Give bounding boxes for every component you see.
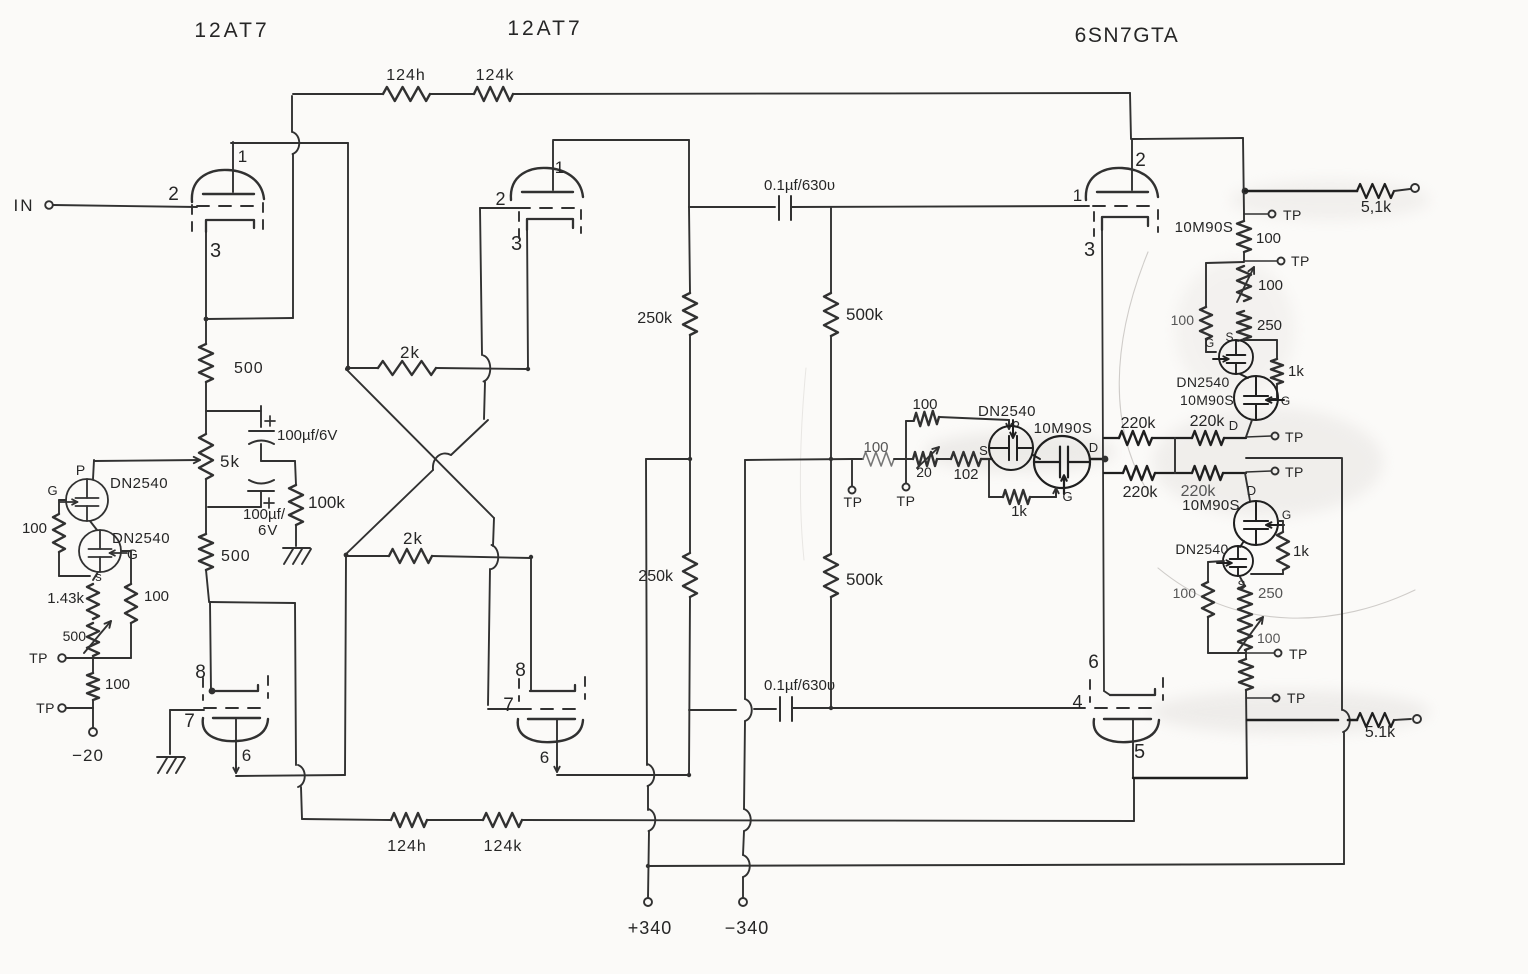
triode V1a envelope side dashes <box>191 205 193 232</box>
svg-text:5: 5 <box>1134 741 1146 763</box>
resistor 1k (Q7 gate) <box>1277 532 1289 570</box>
resistor 250 (upper) <box>1237 311 1251 339</box>
pot 5k wiper arrow <box>94 460 200 461</box>
wire V2b plate lead <box>556 719 558 771</box>
svg-text:2: 2 <box>495 189 506 209</box>
svg-text:0.1µf/630υ: 0.1µf/630υ <box>764 677 835 694</box>
svg-text:2k: 2k <box>403 529 423 548</box>
svg-text:1k: 1k <box>1288 363 1304 380</box>
node +340 terminal <box>644 898 652 906</box>
wire Q4 drain out <box>1090 458 1104 460</box>
svg-text:G: G <box>1205 336 1215 350</box>
potentiometer 5k (cathode) <box>199 434 213 479</box>
svg-text:1: 1 <box>555 158 565 177</box>
svg-text:6V: 6V <box>258 522 278 539</box>
node bottom output terminal <box>1413 715 1421 723</box>
triode V1b grid dashed line <box>204 707 263 709</box>
node TP stub (lower chain 2) <box>1246 697 1272 699</box>
resistor 100 (Q8 gate) <box>1202 582 1214 617</box>
wire mid node row <box>261 460 295 462</box>
svg-text:DN2540: DN2540 <box>110 475 168 492</box>
wire diagonal A continuation down <box>493 518 494 546</box>
triode V2a plate bar <box>522 191 573 193</box>
junction plate/2k upper <box>346 366 351 371</box>
wire 500k rail bottom <box>830 597 832 708</box>
svg-text:220k: 220k <box>1190 413 1226 430</box>
wire 250 into Q5 <box>1238 339 1244 341</box>
junction 2k lower left <box>344 553 349 558</box>
wire 220k mid connector <box>1174 438 1176 473</box>
wire servo link row <box>1246 457 1341 459</box>
wire Q7-Q8 link <box>1240 541 1244 547</box>
triode V3a cathode bracket <box>1102 217 1148 230</box>
wire Q8 to 250 <box>1240 577 1245 586</box>
pot 100 arrow (upper) <box>1237 267 1254 302</box>
resistor 100k <box>289 485 303 525</box>
triode V2b envelope dome <box>518 719 583 742</box>
wire V1a cathode lead <box>205 221 207 319</box>
triode V1a grid dashed line <box>197 205 261 207</box>
wire Q1-Q2 cascode link <box>90 521 97 530</box>
wire V3b cathode to rail <box>1104 691 1110 695</box>
triode V2b grid dashed line <box>519 708 580 710</box>
svg-text:TP: TP <box>1291 253 1310 269</box>
wire rail <box>1245 650 1247 659</box>
resistor 100 (bias bottom) <box>87 673 99 700</box>
arrowhead V1b plate lead <box>235 762 237 773</box>
wire feedback drop left (lower) <box>295 603 296 765</box>
svg-text:100: 100 <box>105 676 130 693</box>
wire feedback row up to V3b plate row <box>1133 778 1135 821</box>
resistor 100 (Q5 gate) <box>1200 307 1212 339</box>
resistor 124h (top left) <box>383 87 430 101</box>
svg-text:250: 250 <box>1258 585 1283 602</box>
wire 1k branch (Q6 gate) <box>1244 339 1277 341</box>
wire output rail top <box>1243 138 1244 214</box>
node TP stub 1 <box>851 459 853 486</box>
wire V2b grid row <box>488 708 519 710</box>
wire Q2 gate to 100 right <box>122 550 131 552</box>
wire to bottom output terminal <box>1394 719 1411 720</box>
wire 1k to rail <box>1282 570 1284 574</box>
pot 500 arrow <box>84 621 111 653</box>
wire rail <box>1243 252 1245 261</box>
svg-text:3: 3 <box>511 233 523 255</box>
potentiometer 100 (lower) <box>1238 617 1252 650</box>
svg-text:220k: 220k <box>1121 415 1157 432</box>
svg-text:TP: TP <box>1283 207 1302 223</box>
svg-text:4: 4 <box>1072 692 1083 712</box>
wire 220k lower row mid <box>1155 472 1192 474</box>
node TP row 1 <box>58 654 66 662</box>
wire V2a grid drop <box>480 208 482 355</box>
svg-text:8: 8 <box>515 660 527 681</box>
wire V3a plate lead <box>1131 140 1133 190</box>
triode V3b envelope side dashes <box>1089 680 1091 702</box>
junction coupling cap bottom <box>829 706 833 710</box>
wire coupling row top right <box>791 206 1089 207</box>
wire hop over plate row <box>293 132 300 154</box>
resistor 500 (lower, V1b cathode) <box>199 534 213 570</box>
wire feedback drop left (upper) <box>291 96 293 132</box>
svg-text:8: 8 <box>195 662 207 683</box>
wire 1k branch down <box>988 459 990 497</box>
triode V3b grid dashed line <box>1095 707 1160 709</box>
wire top feedback row right <box>513 93 1130 94</box>
wire 100 to TP row <box>1207 617 1209 653</box>
svg-text:TP: TP <box>897 493 916 509</box>
svg-text:2k: 2k <box>400 343 420 362</box>
wire bottom output row <box>1247 719 1338 722</box>
triode V2b plate bar <box>528 718 575 720</box>
wire V3b plate row <box>1133 777 1247 779</box>
wire coupling row bottom left <box>689 709 736 711</box>
wire V2a grid entry <box>480 207 518 209</box>
wire into Q3 <box>981 458 992 460</box>
wire 250k rail top <box>689 207 690 293</box>
triode V1a cathode bracket <box>206 220 254 232</box>
triode V2a cathode bracket <box>527 219 573 230</box>
potentiometer 500 (bias) <box>87 623 99 656</box>
svg-text:250k: 250k <box>637 310 673 327</box>
capacitor C1 100uF/6V <box>249 430 274 432</box>
triode V1b cathode bracket <box>214 685 258 691</box>
svg-text:5,1k: 5,1k <box>1361 199 1392 216</box>
svg-text:10M90S: 10M90S <box>1180 392 1234 408</box>
resistor 500k (upper) <box>824 293 838 336</box>
wire 220k upper row left <box>1104 437 1119 439</box>
node row to cap C1 <box>206 410 261 412</box>
wire to top output terminal <box>1394 189 1410 191</box>
resistor 220k (upper right) <box>1192 431 1224 445</box>
resistor 220k (upper left) <box>1119 431 1152 445</box>
wire plate node V1b up <box>345 556 346 775</box>
resistor 220k (lower right) <box>1192 466 1223 480</box>
triode V1a envelope dome <box>192 170 264 202</box>
node top output terminal <box>1411 184 1419 192</box>
wire servo row <box>894 458 913 460</box>
wire IN to V1a grid pin2 <box>53 205 197 207</box>
svg-text:TP: TP <box>844 494 863 510</box>
resistor 100 (gate feed) <box>914 411 939 426</box>
svg-text:DN2540: DN2540 <box>1176 374 1229 390</box>
resistor 102 <box>951 452 981 466</box>
svg-text:TP: TP <box>29 650 48 666</box>
junction B+ 250k node <box>688 457 692 461</box>
svg-text:124h: 124h <box>386 67 426 84</box>
svg-text:124k: 124k <box>476 67 515 84</box>
node -340 terminal <box>739 898 747 906</box>
wire V1b cathode lead up <box>210 602 211 691</box>
svg-text:7: 7 <box>503 695 515 716</box>
resistor 2k (lower) <box>389 549 432 563</box>
resistor 2k (upper) <box>378 361 436 375</box>
svg-text:7: 7 <box>184 711 196 732</box>
ground (100k) <box>283 547 310 549</box>
triode V3a grid dashed line <box>1093 205 1152 207</box>
svg-text:G: G <box>47 483 58 498</box>
svg-text:100: 100 <box>912 396 937 413</box>
svg-text:TP: TP <box>1287 690 1306 706</box>
wire 1k to Q4 gate <box>1030 496 1056 498</box>
svg-text:2: 2 <box>1135 150 1147 171</box>
node loop mark <box>1014 422 1019 427</box>
triode V1b envelope dome <box>203 718 268 741</box>
wire hop over V1b plate row <box>298 765 305 787</box>
wire 220k lower row left <box>1104 472 1123 474</box>
capacitor C1 plus sign <box>265 420 275 422</box>
hop over 2k lower <box>492 545 499 569</box>
svg-text:220k: 220k <box>1123 484 1159 501</box>
wire V1b plate row <box>236 775 345 776</box>
wire link down to B+ row <box>1341 458 1343 710</box>
mosfet Q1 DN2540 (upper) <box>66 479 108 521</box>
wire Q2 source to chain <box>93 572 98 580</box>
svg-text:D: D <box>1229 418 1239 433</box>
wire 100 branch up <box>905 421 907 459</box>
wire 220k node into Q7 <box>1245 473 1250 501</box>
resistor 250k (lower) <box>683 553 697 597</box>
wire 100 to source node <box>58 552 60 576</box>
wire V2a cathode lead <box>527 222 528 369</box>
pot 100 arrow (lower) <box>1238 617 1263 651</box>
svg-text:0.1µf/630υ: 0.1µf/630υ <box>764 177 835 194</box>
wire -340 riser <box>744 460 746 699</box>
wire V1a plate node row <box>231 142 348 144</box>
wire V3a cathode rail <box>1102 229 1104 691</box>
svg-text:2: 2 <box>168 184 180 205</box>
svg-text:250: 250 <box>1257 317 1282 334</box>
svg-text:10M90S: 10M90S <box>1182 497 1240 514</box>
svg-text:100: 100 <box>1256 230 1281 247</box>
svg-text:100: 100 <box>1171 312 1195 328</box>
node -20 terminal <box>89 728 97 736</box>
wire 5k wiper feed down <box>93 460 94 479</box>
svg-text:250k: 250k <box>638 568 674 585</box>
triode V3a envelope side dashes <box>1093 212 1095 236</box>
triode V3a plate bar <box>1097 191 1148 193</box>
svg-text:s: s <box>95 569 103 584</box>
mosfet Q3 DN2540 (servo) <box>989 426 1033 470</box>
resistor 124k (bottom right) <box>483 813 522 827</box>
capacitor C2 curved plate <box>249 480 274 484</box>
triode V2a grid dashed line <box>518 207 577 209</box>
svg-text:5k: 5k <box>220 452 240 471</box>
junction V1a cathode row <box>204 317 209 322</box>
potentiometer 100 (upper) <box>1237 266 1251 301</box>
wire coupling row bottom right <box>792 707 1085 709</box>
junction 2k lower right <box>529 555 533 559</box>
wire 2k lower left <box>346 555 389 557</box>
resistor 100 (lower chain) <box>1239 659 1253 690</box>
wire V2a plate node down <box>688 140 690 207</box>
arrowhead V2b plate lead <box>556 761 558 772</box>
node TP stub (220k upper) <box>1246 436 1271 437</box>
svg-text:1k: 1k <box>1293 543 1309 560</box>
triode V2a envelope side dashes <box>518 212 520 238</box>
wire feedback down to V3a plate node <box>1130 93 1131 139</box>
svg-text:500: 500 <box>234 360 264 377</box>
resistor 100 (Q2 gate) <box>125 584 137 623</box>
wire between 124 resistors <box>430 93 474 95</box>
wire Q1 gate to 100 <box>59 499 66 501</box>
svg-text:100: 100 <box>1257 630 1281 646</box>
wire gate feed to Q3 <box>939 417 1009 420</box>
wire 2k upper left <box>348 367 378 369</box>
resistor 1.43k <box>87 584 99 619</box>
capacitor C2 plus sign <box>264 502 274 504</box>
svg-text:100µf/6V: 100µf/6V <box>277 427 337 444</box>
triode V3a envelope dome <box>1086 168 1158 200</box>
wire V2b plate row <box>557 774 689 776</box>
junction dot servo drain <box>1102 456 1109 463</box>
svg-text:D: D <box>1089 440 1099 455</box>
svg-text:TP: TP <box>1285 429 1304 445</box>
hop link over bottom output row <box>1343 710 1350 732</box>
diagonal wire A (plate V1a to V2b grid) <box>346 369 494 518</box>
wire 220k lower row right <box>1223 472 1246 474</box>
wire 5k to 500 lower <box>205 479 207 534</box>
wire V2b cathode lead <box>530 558 532 691</box>
node TP stub (plate) <box>1244 213 1268 215</box>
wire 100 left branch <box>1206 262 1244 263</box>
hop +340 over feedback row <box>649 809 656 831</box>
svg-text:TP: TP <box>36 700 55 716</box>
wire V3b plate lead <box>1132 719 1134 742</box>
node TP stub (chain) <box>1244 260 1277 262</box>
resistor 250 (lower) <box>1238 586 1252 617</box>
junction 500k servo node <box>829 457 833 461</box>
triode V2a envelope dome <box>511 168 583 200</box>
svg-text:20: 20 <box>916 464 932 480</box>
hop -340 over B+ row <box>743 855 750 877</box>
svg-text:TP: TP <box>1289 646 1308 662</box>
svg-text:6: 6 <box>540 748 550 767</box>
arrowhead into Q3 top <box>1008 420 1010 429</box>
arrowhead into Q4 gate <box>1055 488 1057 497</box>
wire top output row <box>1245 190 1357 193</box>
hop +340 over V2b plate row <box>648 764 655 786</box>
diagonal wire B lower <box>346 470 433 554</box>
wire V1b cathode row to feedback drop <box>209 602 295 603</box>
wire V2a plate lead <box>552 141 554 190</box>
wire V3b plate down <box>1132 742 1134 778</box>
mosfet Q5 DN2540 (upper out) <box>1219 340 1253 374</box>
wire between bottom 124 resistors <box>427 819 483 821</box>
resistor 5.1k (top output) <box>1357 184 1394 198</box>
junction +340 B+ row <box>646 864 650 868</box>
svg-text:100: 100 <box>1258 277 1283 294</box>
wire servo row left <box>745 459 852 460</box>
wire Q5-Q6 link <box>1240 374 1248 378</box>
svg-text:500: 500 <box>63 628 87 644</box>
hop over 2k upper <box>484 356 491 382</box>
diagonal wire B upper (V2a grid to V1b plate node) <box>451 420 488 455</box>
svg-text:G: G <box>1282 508 1292 522</box>
wire V3a plate stub row <box>1132 138 1243 139</box>
svg-text:100k: 100k <box>308 493 345 512</box>
wire 250k rail bottom <box>689 597 690 775</box>
wire Q3-Q4 link <box>1033 455 1040 459</box>
wire Q8 gate wire <box>1208 561 1224 562</box>
svg-text:100: 100 <box>144 588 169 605</box>
wire V1b grid row <box>170 709 204 711</box>
svg-text:G: G <box>127 546 139 562</box>
mosfet Q7 10M90S (lower out) <box>1234 501 1278 545</box>
wire 1k to Q6 gate <box>1276 384 1278 399</box>
potentiometer 20 <box>913 452 937 466</box>
resistor 250k (upper) <box>683 293 697 335</box>
wire servo row mid <box>937 458 951 460</box>
hop -340 over coupling row <box>745 699 752 721</box>
svg-text:100µf/: 100µf/ <box>243 506 286 523</box>
svg-text:6: 6 <box>1088 652 1100 673</box>
wire V1a plate lead <box>232 142 234 192</box>
resistor 220k (lower left) <box>1123 466 1155 480</box>
resistor 1k (Q4 gate) <box>1003 490 1030 504</box>
svg-text:1: 1 <box>1073 186 1083 205</box>
junction V2a cathode/2k <box>526 367 530 371</box>
wire 500k rail top <box>830 208 832 293</box>
hop over diagonal A <box>433 453 451 470</box>
triode V1b envelope side dashes <box>202 678 204 700</box>
wire bottom feedback row left <box>302 819 391 820</box>
triode V2b envelope side dashes <box>518 679 520 701</box>
svg-text:P: P <box>76 462 86 478</box>
wire 2k upper right <box>436 368 528 369</box>
svg-text:500: 500 <box>221 548 251 565</box>
resistor 100 (Q1 gate) <box>53 514 65 552</box>
triode V1b plate bar <box>213 717 260 719</box>
svg-text:DN2540: DN2540 <box>978 403 1036 420</box>
svg-text:500k: 500k <box>846 570 883 589</box>
svg-text:−20: −20 <box>72 746 104 765</box>
wire coupling row top left <box>689 206 775 208</box>
svg-text:1.43k: 1.43k <box>47 590 84 607</box>
wire cathode to 5k node <box>205 382 207 434</box>
svg-text:+340: +340 <box>628 918 673 938</box>
wire Q7 gate to 1k <box>1278 520 1283 522</box>
wire V1b plate lead <box>235 718 237 772</box>
node TP stub (lower chain 1) <box>1246 652 1274 654</box>
wire V1b grid to ground <box>169 710 171 754</box>
wire top feedback row left <box>293 93 383 95</box>
svg-text:−340: −340 <box>725 918 770 938</box>
wire 100 to Q5 gate <box>1205 339 1207 352</box>
svg-text:TP: TP <box>1285 464 1304 480</box>
svg-text:3: 3 <box>210 240 222 262</box>
triode V3b envelope dome <box>1094 719 1159 742</box>
wire mid node down to 100k <box>295 461 296 485</box>
junction dot output top <box>1242 188 1249 195</box>
junction 2k/diagonal upper <box>345 367 349 371</box>
wire 250k rail middle <box>689 335 691 553</box>
svg-text:124k: 124k <box>484 838 523 855</box>
wire plate node down to 2k <box>347 143 349 367</box>
wire rail to plate row <box>1246 690 1247 778</box>
resistor 124k (top right) <box>474 87 513 101</box>
wire 100 down to TP row <box>130 623 132 658</box>
mosfet Q2 DN2540 (lower) <box>79 530 121 572</box>
svg-text:IN: IN <box>14 196 35 215</box>
svg-text:DN2540: DN2540 <box>112 530 170 547</box>
svg-text:500k: 500k <box>846 305 883 324</box>
capacitor 0.1uF/630V (top) <box>778 196 780 220</box>
resistor 1k (Q6 gate) <box>1271 359 1283 384</box>
svg-text:124h: 124h <box>387 838 427 855</box>
wire rail <box>1243 214 1245 221</box>
wire Q6 drain to 220k node <box>1246 420 1252 437</box>
